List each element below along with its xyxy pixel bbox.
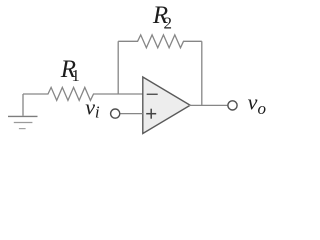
op-amp minus sign	[147, 93, 158, 95]
wire: feedback right vertical	[201, 41, 203, 105]
svg-text:v: v	[248, 89, 258, 114]
resistor R2	[118, 35, 202, 48]
op-amp plus sign	[146, 109, 156, 119]
terminal vo	[228, 101, 237, 110]
svg-text:i: i	[95, 102, 100, 121]
wire: output	[189, 104, 227, 106]
wire: vi to plus input	[120, 113, 142, 115]
op-amp U1	[143, 77, 190, 134]
terminal vi	[111, 109, 120, 118]
ground	[8, 94, 38, 129]
wire: feedback left vertical	[117, 41, 119, 94]
svg-text:1: 1	[71, 66, 80, 85]
resistor R1	[23, 87, 143, 100]
svg-text:2: 2	[164, 14, 173, 33]
svg-text:v: v	[85, 95, 95, 120]
svg-text:o: o	[258, 99, 267, 118]
